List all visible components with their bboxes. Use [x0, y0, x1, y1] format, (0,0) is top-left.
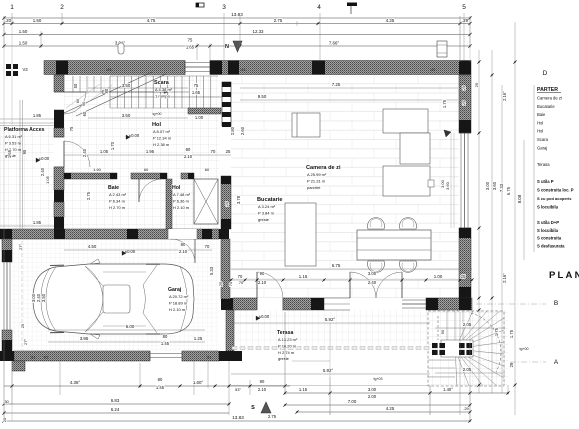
window south east — [402, 299, 426, 301]
svg-text:Hol: Hol — [537, 129, 543, 134]
car hood lines — [41, 268, 50, 330]
roof vent mark above top wall — [437, 41, 447, 57]
bottom dim row 3 — [4, 412, 229, 414]
svg-text:70: 70 — [228, 281, 233, 286]
svg-text:Hol: Hol — [537, 120, 543, 125]
sofa element north — [383, 109, 428, 133]
svg-text:P 6.34 m: P 6.34 m — [109, 198, 126, 203]
svg-text:.20: .20 — [5, 18, 12, 23]
svg-text:V1: V1 — [31, 356, 36, 360]
svg-text:1.85: 1.85 — [33, 113, 42, 118]
svg-text:1.50: 1.50 — [19, 41, 28, 46]
winder stair square outline — [428, 311, 504, 386]
svg-text:1: 1 — [10, 4, 14, 11]
svg-text:75: 75 — [194, 83, 199, 88]
svg-text:3: 3 — [222, 4, 226, 11]
svg-text:3.00: 3.00 — [485, 181, 490, 190]
grid axis line B — [476, 303, 546, 305]
interior wall kitchen west — [221, 176, 231, 229]
svg-text:H 2.70 m: H 2.70 m — [109, 205, 126, 210]
dim 6.00 garage — [48, 329, 205, 331]
graphic scale bar by stair — [222, 82, 231, 126]
svg-text:A 13.23 m²: A 13.23 m² — [278, 337, 298, 342]
svg-text:13.83: 13.83 — [232, 415, 244, 420]
svg-text:1.45: 1.45 — [161, 341, 170, 346]
winder stair dashed walk arc — [471, 313, 501, 372]
svg-text:70: 70 — [205, 244, 210, 249]
window tall right wall — [460, 133, 462, 228]
dimension row 1 top — [4, 23, 470, 25]
svg-text:1 rampa: 1 rampa — [155, 93, 170, 98]
svg-text:1.50: 1.50 — [19, 29, 28, 34]
svg-text:S utila P: S utila P — [537, 179, 554, 184]
svg-text:Terasa: Terasa — [537, 162, 550, 167]
long extension lines right edge — [469, 16, 471, 62]
step stub below garage south wall — [12, 361, 25, 371]
svg-text:gresie: gresie — [258, 217, 270, 222]
svg-text:90: 90 — [440, 329, 445, 334]
dining chair bottom right — [400, 261, 417, 272]
svg-text:P 3.53 m: P 3.53 m — [5, 140, 22, 145]
grid axis line A — [510, 361, 546, 363]
garage south wall west — [14, 351, 150, 361]
svg-text:V3: V3 — [241, 67, 247, 72]
svg-text:13.83: 13.83 — [231, 12, 243, 17]
section marker near axis 4 — [347, 3, 357, 7]
svg-text:1.15: 1.15 — [299, 274, 308, 279]
svg-text:3.60: 3.60 — [445, 181, 450, 190]
svg-text:53°: 53° — [235, 387, 241, 392]
svg-text:75: 75 — [69, 126, 74, 131]
svg-text:60: 60 — [144, 167, 149, 172]
svg-text:60: 60 — [205, 167, 210, 172]
extension lines top — [11, 13, 13, 23]
section marker top left of axis 3 — [196, 3, 204, 7]
svg-text:80: 80 — [186, 147, 191, 152]
main staircase treads — [109, 76, 111, 108]
svg-text:6.75: 6.75 — [332, 263, 341, 268]
svg-text:1.45: 1.45 — [156, 385, 165, 390]
bottom overall dim 13.83 — [4, 420, 470, 422]
bathroom corridor north wall segments — [64, 173, 117, 179]
bathroom door leaf and arc — [138, 179, 140, 202]
svg-text:S construita loc. P: S construita loc. P — [537, 188, 574, 193]
wardrobe with cross — [194, 179, 218, 224]
legend squares V3 top left — [6, 64, 11, 69]
column block top wall axis 4 — [312, 61, 325, 75]
svg-text:7.33: 7.33 — [499, 183, 504, 192]
svg-text:S cu pod acoperis: S cu pod acoperis — [537, 196, 572, 201]
svg-text:4.50: 4.50 — [88, 244, 97, 249]
svg-text:PARTER: PARTER — [537, 87, 558, 93]
svg-text:3.60: 3.60 — [492, 181, 497, 190]
french doors to terrace — [324, 297, 350, 299]
svg-text:2.10: 2.10 — [258, 387, 267, 392]
svg-text:1.15: 1.15 — [299, 387, 308, 392]
svg-text:Bucatarie: Bucatarie — [257, 197, 283, 203]
floor winder stair area — [430, 310, 508, 385]
svg-text:A 3.24 m²: A 3.24 m² — [258, 204, 276, 209]
svg-text:1.70: 1.70 — [110, 141, 115, 150]
dining table — [357, 230, 431, 260]
car windshield — [85, 266, 103, 332]
winder stair upper flight treads — [446, 311, 448, 340]
svg-text:2.40: 2.40 — [40, 167, 45, 176]
svg-text:2.40: 2.40 — [368, 280, 377, 285]
floor living room and kitchen parquet — [231, 75, 459, 298]
living room south wall segment east — [426, 298, 472, 310]
terrace dashed edge — [232, 347, 237, 350]
svg-text:Baie: Baie — [108, 185, 119, 191]
svg-text:PLAN: PLAN — [549, 270, 579, 281]
side table — [428, 180, 434, 187]
interior wall scara hol stub — [188, 108, 221, 114]
winder stair lower flight treads — [428, 359, 455, 361]
svg-text:S desfasurata: S desfasurata — [537, 244, 565, 249]
winder stair post block east — [459, 343, 472, 355]
svg-text:H 2.10 m: H 2.10 m — [169, 307, 186, 312]
svg-text:27°: 27° — [18, 244, 23, 250]
dining chair top left — [368, 218, 385, 229]
svg-text:1.75: 1.75 — [442, 99, 447, 108]
fireplace cabinet north of kitchen — [292, 113, 320, 137]
section marker triangle living east — [444, 130, 451, 137]
svg-text:70: 70 — [211, 149, 216, 154]
svg-text:P 21.31 m: P 21.31 m — [307, 178, 326, 183]
dim 3.50 hol — [88, 117, 188, 119]
garage west window — [3, 262, 5, 330]
column block right wall below corner — [459, 120, 471, 133]
exterior wall left — [54, 75, 64, 92]
svg-text:V2: V2 — [431, 67, 437, 72]
entry door leaf and swing arc upper — [64, 91, 86, 93]
sofa element south — [383, 166, 430, 196]
svg-text:Garaj: Garaj — [537, 145, 547, 150]
living room south wall segment middle — [283, 298, 324, 310]
svg-text:2.00: 2.00 — [368, 394, 377, 399]
svg-text:27°: 27° — [23, 339, 28, 345]
svg-text:6.24: 6.24 — [111, 407, 120, 412]
window opening garage south — [150, 353, 182, 355]
svg-text:1.65: 1.65 — [7, 149, 12, 158]
svg-text:Camera de zi: Camera de zi — [537, 96, 562, 101]
svg-text:.29: .29 — [462, 18, 469, 23]
winder stair fan lines — [455, 311, 473, 349]
entry door opening left wall upper — [54, 91, 64, 93]
svg-text:1.00: 1.00 — [434, 274, 443, 279]
garage west wall lower — [2, 330, 12, 351]
dim row garage south — [48, 341, 205, 343]
extension double line living east — [450, 133, 452, 228]
svg-text:2.80: 2.80 — [230, 126, 235, 135]
right vertical dimension lines — [478, 50, 480, 393]
svg-text:5.33: 5.33 — [209, 266, 214, 275]
extension lines french door — [349, 272, 351, 280]
ticks living south row — [229, 278, 232, 281]
floor access platform — [0, 125, 54, 229]
svg-text:A 2.43 m²: A 2.43 m² — [109, 192, 127, 197]
svg-text:±0.00: ±0.00 — [125, 249, 136, 254]
svg-text:7.25: 7.25 — [332, 82, 341, 87]
svg-text:7.66°: 7.66° — [329, 41, 340, 46]
svg-text:H 2.10 m: H 2.10 m — [173, 205, 190, 210]
svg-text:1.05: 1.05 — [45, 175, 50, 184]
svg-text:4.25: 4.25 — [386, 18, 395, 23]
svg-text:S: S — [251, 405, 255, 411]
svg-text:2.75: 2.75 — [86, 191, 91, 200]
svg-text:3.00: 3.00 — [368, 387, 377, 392]
overall width dimension 13.83 top — [4, 17, 470, 19]
svg-text:9.50: 9.50 — [258, 94, 267, 99]
svg-text:H 2.74 m: H 2.74 m — [278, 350, 295, 355]
svg-text:25: 25 — [226, 149, 231, 154]
svg-text:P 6.36 m: P 6.36 m — [173, 198, 190, 203]
svg-text:V1: V1 — [207, 356, 212, 360]
svg-text:1.95: 1.95 — [146, 149, 155, 154]
door leaf and swing arc lower — [63, 141, 65, 167]
dim row hol south — [64, 154, 231, 156]
window W top in scara wall — [185, 62, 210, 64]
svg-text:29: 29 — [509, 362, 514, 367]
car roof panel — [103, 285, 130, 313]
exterior wall right upper — [459, 75, 471, 133]
svg-text:2.16°: 2.16° — [502, 273, 507, 283]
svg-text:A: A — [554, 359, 559, 366]
svg-text:25: 25 — [20, 323, 25, 328]
svg-text:2.10: 2.10 — [184, 154, 193, 159]
svg-text:1.50: 1.50 — [33, 18, 42, 23]
svg-text:7.00: 7.00 — [348, 399, 357, 404]
bottom dim row 2 — [4, 403, 229, 405]
garage west wall upper — [2, 239, 12, 262]
svg-text:2.10: 2.10 — [179, 249, 188, 254]
svg-text:2.05: 2.05 — [463, 367, 472, 372]
svg-text:Baie: Baie — [537, 112, 546, 117]
svg-text:6.00: 6.00 — [126, 324, 135, 329]
svg-text:parchet: parchet — [307, 185, 321, 190]
svg-text:3.00: 3.00 — [368, 271, 377, 276]
svg-text:5.92°: 5.92° — [325, 317, 336, 322]
bottom dim row 1 — [4, 385, 290, 387]
svg-text:1.75: 1.75 — [509, 329, 514, 338]
svg-text:P 16.20 m: P 16.20 m — [278, 343, 297, 348]
svg-text:50: 50 — [73, 83, 78, 88]
svg-text:H 2.38 m: H 2.38 m — [153, 142, 170, 147]
svg-text:1.65: 1.65 — [186, 45, 195, 50]
svg-text:Scara: Scara — [537, 137, 549, 142]
dim 3.50 scara — [88, 87, 188, 89]
bottom dim row 1 right — [285, 392, 508, 394]
dimension row 2 top — [4, 34, 470, 36]
svg-text:12.33: 12.33 — [253, 29, 265, 34]
dining chair top right — [400, 218, 417, 229]
svg-text:A 25.99 m²: A 25.99 m² — [307, 172, 327, 177]
dim 2.05 winder top — [435, 327, 505, 329]
svg-text:60: 60 — [82, 111, 87, 116]
svg-text:5: 5 — [462, 4, 466, 11]
svg-text:70: 70 — [239, 280, 244, 285]
floor terrace — [231, 310, 430, 346]
svg-text:gresie: gresie — [278, 356, 290, 361]
svg-text:2.60: 2.60 — [240, 126, 245, 135]
garage east wall — [221, 239, 230, 299]
svg-text:S locuibila: S locuibila — [537, 205, 559, 210]
dim 6.75 dining — [231, 268, 472, 270]
winder stair post block west — [432, 343, 445, 355]
svg-text:2.75: 2.75 — [274, 18, 283, 23]
column block left wall — [54, 110, 64, 128]
svg-text:3.50: 3.50 — [122, 83, 131, 88]
svg-text:±0.00: ±0.00 — [259, 314, 270, 319]
svg-text:25: 25 — [462, 86, 466, 90]
staircase break lines — [64, 72, 152, 113]
svg-text:Bucatarie: Bucatarie — [537, 104, 555, 109]
svg-text:2.75: 2.75 — [268, 414, 277, 419]
winder stair landing rect — [441, 340, 473, 357]
svg-text:1.25: 1.25 — [194, 336, 203, 341]
column block top wall right of window — [228, 61, 239, 75]
svg-text:4.75: 4.75 — [147, 18, 156, 23]
dim 7.25 living — [240, 87, 458, 89]
svg-text:A 8.07 m²: A 8.07 m² — [153, 129, 171, 134]
car side windows — [103, 271, 146, 273]
svg-text:A 4.38 m²: A 4.38 m² — [155, 87, 173, 92]
svg-text:90: 90 — [260, 379, 265, 384]
dining chair bottom left — [368, 261, 385, 272]
svg-text:3.50: 3.50 — [41, 293, 46, 302]
dim 2.05 winder bottom — [435, 372, 505, 374]
svg-text:±0.00: ±0.00 — [129, 133, 140, 138]
svg-text:4.25: 4.25 — [386, 406, 395, 411]
staircase short treads left — [72, 76, 74, 92]
svg-text:25: 25 — [461, 274, 466, 279]
column block top wall left of window — [210, 61, 222, 75]
svg-text:3.95: 3.95 — [80, 336, 89, 341]
garage north wall — [0, 229, 219, 239]
dim row living south — [231, 279, 472, 281]
svg-text:Hol: Hol — [172, 185, 181, 191]
svg-text:2.40: 2.40 — [82, 148, 87, 157]
exterior wall right lower — [459, 228, 471, 298]
garage south wall east part — [182, 351, 219, 361]
svg-text:S utila D+P: S utila D+P — [537, 220, 559, 225]
bottom dim extension lines — [11, 361, 13, 405]
dim row garage top — [64, 249, 212, 251]
car wheel marks — [50, 264, 64, 266]
column blocks on bathroom wall — [64, 173, 71, 179]
column block top wall right corner — [459, 61, 471, 75]
svg-text:20: 20 — [2, 417, 7, 422]
window capsule marker on dim row — [118, 43, 124, 54]
left wall middle segment — [54, 128, 64, 137]
svg-text:60: 60 — [76, 99, 80, 103]
svg-text:Scara: Scara — [154, 80, 170, 86]
svg-text:A 20.72 m²: A 20.72 m² — [169, 294, 189, 299]
car in garage top view — [33, 264, 194, 334]
svg-text:2.16°: 2.16° — [502, 91, 507, 101]
svg-text:B: B — [554, 300, 558, 307]
staircase walk line arrow — [102, 90, 106, 94]
terrace lower boundary line — [231, 385, 428, 387]
svg-text:1.60°: 1.60° — [193, 380, 204, 385]
svg-text:90: 90 — [82, 102, 86, 106]
staircase lower flight diagonals — [66, 84, 100, 108]
svg-text:N: N — [225, 44, 229, 50]
svg-text:3.50: 3.50 — [122, 113, 131, 118]
svg-text:1.05: 1.05 — [100, 149, 109, 154]
svg-text:Camera de zi: Camera de zi — [306, 165, 341, 171]
bottom dim row 3 right — [297, 411, 470, 413]
svg-text:V3: V3 — [22, 67, 28, 72]
wall between baie and hol2 — [166, 179, 172, 229]
car side mirrors — [90, 259, 100, 264]
svg-text:V1: V1 — [44, 356, 49, 360]
bottom dim row 2 right — [285, 404, 470, 406]
svg-text:P 18.89 m: P 18.89 m — [169, 300, 188, 305]
svg-text:tg+00: tg+00 — [519, 347, 528, 351]
dim 1.85 platforma bottom — [0, 225, 54, 227]
svg-text:1.00: 1.00 — [195, 115, 204, 120]
living room south wall segment west — [221, 298, 233, 310]
svg-text:A 7.48 m²: A 7.48 m² — [173, 192, 191, 197]
exterior wall top — [44, 61, 185, 75]
svg-text:Platforma Acces: Platforma Acces — [4, 127, 45, 133]
exterior pad below south wall — [292, 360, 330, 362]
platform edge lines — [19, 100, 21, 229]
svg-text:1.65: 1.65 — [192, 90, 201, 95]
dim 5.92 terrace lower — [231, 373, 430, 375]
svg-text:1.90: 1.90 — [93, 167, 102, 172]
svg-text:tg+03: tg+03 — [373, 377, 382, 381]
svg-text:75: 75 — [188, 38, 193, 43]
svg-text:±0.00: ±0.00 — [39, 156, 50, 161]
svg-text:P 12.34 m: P 12.34 m — [153, 135, 172, 140]
svg-text:1.75: 1.75 — [494, 327, 499, 336]
column block garage east wall south — [221, 299, 233, 308]
long extension lines left edge — [3, 16, 5, 421]
floor hall and stair area — [64, 75, 219, 229]
staircase flight separator — [64, 91, 189, 93]
dim 9.50 living top — [240, 99, 458, 101]
svg-text:S construita: S construita — [537, 236, 562, 241]
svg-text:V3: V3 — [107, 67, 113, 72]
legend block border line — [533, 85, 535, 252]
svg-text:Garaj: Garaj — [168, 287, 182, 293]
svg-text:25: 25 — [474, 82, 479, 87]
svg-text:70: 70 — [238, 274, 243, 279]
svg-text:.29: .29 — [463, 406, 469, 411]
svg-text:25: 25 — [218, 281, 223, 286]
svg-text:Terasa: Terasa — [277, 330, 293, 336]
sofa element corner — [400, 133, 430, 164]
column block top wall axis 1 — [56, 61, 68, 75]
kitchen counter — [285, 203, 316, 266]
svg-text:tg+00: tg+00 — [152, 112, 161, 116]
svg-text:1.85: 1.85 — [33, 220, 42, 225]
left wall lower segments — [54, 167, 64, 190]
svg-text:25: 25 — [224, 201, 229, 206]
svg-text:S locuibila: S locuibila — [537, 228, 559, 233]
svg-text:80: 80 — [104, 88, 109, 93]
svg-text:2: 2 — [60, 4, 64, 11]
svg-text:6.75: 6.75 — [506, 186, 511, 195]
svg-text:Hol: Hol — [152, 122, 161, 128]
svg-text:D: D — [543, 70, 548, 77]
svg-text:8.08: 8.08 — [517, 194, 522, 203]
dimension row 3 top — [4, 45, 470, 47]
svg-text:25: 25 — [462, 101, 466, 105]
door opening left wall lower — [54, 136, 64, 138]
